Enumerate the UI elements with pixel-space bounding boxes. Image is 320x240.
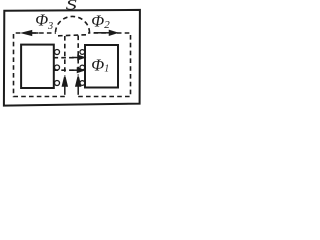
svg-text:S: S [66,0,78,14]
